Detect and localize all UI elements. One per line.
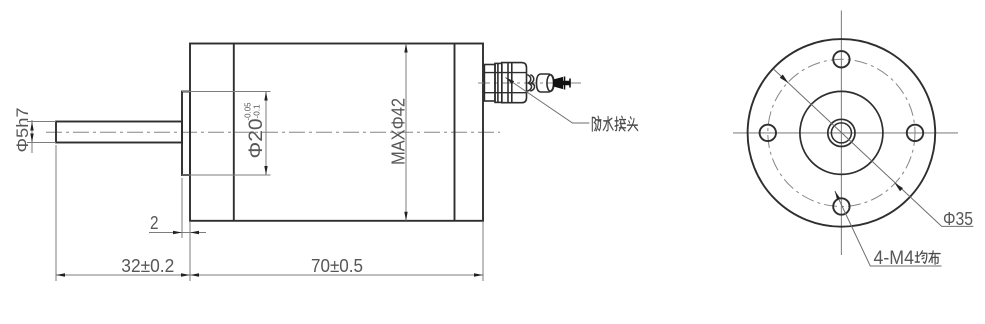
4-M4 leader arrowhead — [835, 191, 840, 200]
svg-text:Φ20: Φ20 — [245, 118, 267, 158]
dimension Phi20: text with tolerance — [243, 102, 268, 158]
connector center line — [478, 82, 581, 84]
dimension MAX Phi42: dimension line — [405, 44, 407, 221]
leader line to connector label — [506, 78, 590, 124]
bolt hole top — [833, 51, 849, 67]
4-M4 leader line — [835, 191, 942, 266]
bottom dimensions: extension lines — [55, 145, 57, 281]
motor body outline — [190, 44, 483, 221]
svg-text:MAXΦ42: MAXΦ42 — [388, 98, 408, 165]
svg-text:Φ35: Φ35 — [943, 208, 973, 229]
dimension 2 (boss width): extension line — [181, 178, 183, 238]
leader arrowhead — [506, 78, 515, 85]
svg-text:32±0.2: 32±0.2 — [121, 256, 174, 276]
svg-text:4-M4: 4-M4 — [874, 248, 915, 269]
Phi35 arrowheads — [780, 75, 789, 84]
dimension Phi20: dimension line — [265, 92, 267, 176]
dimension line 32 / 70 — [56, 274, 483, 276]
dimension Phi20: extension lines — [182, 91, 271, 93]
rear endbell joint line — [454, 44, 456, 221]
svg-text:Φ5h7: Φ5h7 — [13, 108, 32, 153]
outer flange circle — [748, 39, 936, 227]
shaft chamfer circle — [828, 119, 855, 146]
bolt hole left — [760, 125, 776, 141]
connector gland nut — [484, 65, 495, 102]
svg-text:70±0.5: 70±0.5 — [311, 256, 363, 276]
label: waterproof connector 防水接头 — [592, 116, 637, 131]
front pilot boss — [182, 92, 190, 176]
horizontal center line — [733, 132, 958, 134]
svg-text:2: 2 — [150, 213, 159, 233]
bolt hole right — [907, 125, 923, 141]
pilot boss circle — [800, 91, 883, 174]
dimension 2: dimension line — [149, 232, 206, 234]
cable break symbol — [527, 75, 534, 92]
plug barrel — [537, 74, 555, 92]
front endbell joint line — [233, 44, 235, 221]
dimension Phi5h7: extension lines — [27, 121, 56, 123]
dimension Phi5h7: dimension line — [31, 120, 33, 153]
bolt hole bottom — [833, 198, 849, 214]
shaft circle — [831, 123, 851, 143]
shaft — [56, 122, 182, 143]
bolt circle (dash-dot) — [768, 59, 915, 206]
connector washer — [495, 63, 502, 102]
svg-text:-0.1: -0.1 — [252, 104, 262, 118]
center line (shaft axis) — [46, 131, 500, 133]
connector hex flat lines — [484, 73, 526, 93]
plug tip (pins) — [554, 77, 571, 90]
connector shell — [502, 63, 527, 103]
vertical center line — [840, 11, 842, 256]
Phi35 diagonal dimension line — [774, 70, 973, 227]
